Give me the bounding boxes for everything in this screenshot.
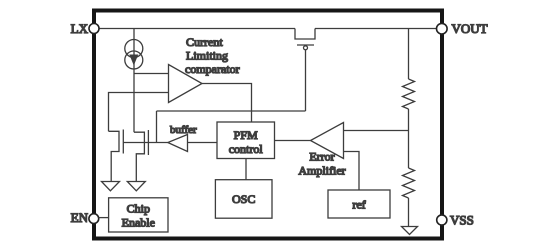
svg-text:Amplifier: Amplifier [298,164,345,178]
transistor M2 (right NMOS sense) [134,130,148,182]
wire VOUT to resistor R1 [408,29,410,80]
ground resistor divider [402,227,418,235]
resistor R2 [403,168,415,198]
wire error amp output to PFM [275,140,311,142]
pin VSS [437,215,447,225]
transistor Q1 (PMOS pass device) [295,29,315,112]
svg-text:Limiting: Limiting [186,49,228,63]
ground left NMOS [102,182,120,191]
svg-text:VSS: VSS [450,213,474,228]
svg-text:buffer: buffer [170,124,197,136]
transistor M1 (left NMOS) [109,130,124,182]
current source I1 [125,29,143,133]
block Chip Enable [109,198,168,232]
block ref [328,190,390,218]
wire PFM to OSC [245,159,247,180]
wire error amp input from ref [344,152,360,191]
op-amp U3 error amplifier [311,123,344,159]
wire shared gate line [123,142,168,144]
wire gate-drive horizontal [157,110,306,112]
svg-text:control: control [229,142,264,156]
svg-text:comparator: comparator [185,62,240,76]
pin LX [89,24,99,34]
wire EN to Chip Enable [99,217,109,219]
chip boundary [94,11,442,239]
block OSC [215,180,272,219]
svg-text:Error: Error [309,150,334,164]
svg-text:Current: Current [186,35,223,49]
label comparator text [185,35,240,76]
wire buffer input from PFM [188,142,218,144]
wire comparator output [202,84,252,123]
wire comparator input+ [134,73,169,75]
label error amplifier [298,150,345,178]
op-amp U1 current limiting comparator [169,65,203,103]
svg-text:PFM: PFM [234,128,258,142]
wire R2 to ground [408,198,410,227]
wire top rail PMOS to VOUT [315,28,437,30]
wire comparator input- [109,93,169,132]
wire gate-drive drop [156,111,158,143]
svg-text:OSC: OSC [232,192,255,206]
svg-text:EN: EN [71,210,89,225]
pin VOUT [437,23,448,34]
block PFM control [217,122,275,159]
label Chip Enable [122,202,155,230]
svg-text:LX: LX [71,21,89,36]
pin EN [89,214,99,224]
wire top rail LX to PMOS [99,28,296,30]
resistor R1 [403,79,415,109]
svg-text:ref: ref [352,198,365,212]
svg-text:Chip: Chip [127,202,150,216]
buffer U2 [168,135,188,152]
svg-text:Enable: Enable [122,216,155,230]
ground right NMOS [127,182,145,191]
wire error amp input from FB node [344,130,409,132]
svg-text:VOUT: VOUT [452,21,488,36]
label PFM control [229,128,264,156]
wire R1 to FB node [408,109,410,168]
